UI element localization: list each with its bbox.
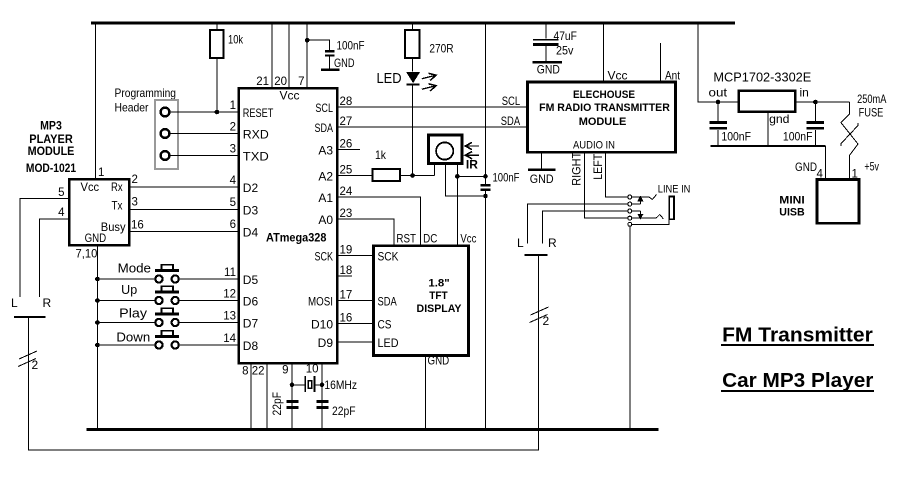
svg-text:Vcc: Vcc [81,180,100,194]
wire rail to MCP out [698,23,739,102]
svg-text:MCP1702-3302E: MCP1702-3302E [713,70,811,85]
svg-text:14: 14 [223,333,236,345]
wire MP3 pin4 R out [40,207,70,297]
svg-text:MODULE: MODULE [28,144,75,158]
IR receiver U5 [429,135,462,163]
svg-text:ELECHOUSE: ELECHOUSE [573,89,635,101]
wire FM Ant [661,43,681,83]
capacitor 100nF MCP out [709,102,751,146]
svg-text:16MHz: 16MHz [324,378,357,392]
node button Up / GND line [95,298,100,303]
capacitor 100nF IR decoupling [480,171,519,190]
jack ring contact [632,215,664,219]
pin number 1 left [230,100,236,112]
wire IR Vcc to cap top [457,175,485,177]
resistor 1k [373,148,400,181]
svg-text:MOD-1021: MOD-1021 [26,161,76,175]
wire PSU ground bus [710,145,825,147]
svg-text:TXD: TXD [243,150,269,164]
pushbutton Down [97,331,238,349]
svg-text:1: 1 [230,100,236,112]
title Car MP3 Player [721,370,874,392]
wire FM Vcc to rail [604,23,628,83]
mini USB connector J3 [779,180,859,224]
svg-text:250mA: 250mA [857,92,886,106]
wire D10 pin16 to TFT CS [337,323,374,325]
wire pin 21 to Vcc rail [256,23,272,88]
node IR Vcc junction [455,174,460,179]
pin number 14 left [223,333,236,345]
pushbutton Mode [97,262,238,283]
svg-text:2: 2 [32,358,39,372]
ground 47uF [532,62,562,76]
IC ATmega328 U1 [239,88,338,363]
svg-text:GND: GND [530,172,554,186]
capacitor 47uF 25v [533,23,577,61]
title FM Transmitter [721,324,874,346]
label MP3 PLAYER MODULE MOD-1021 [26,119,76,176]
wire MCP in [795,101,850,103]
svg-text:Tx: Tx [112,198,123,212]
pin label RXD [243,128,269,142]
wire SDA pin27 to FM [337,126,527,128]
wire MP3 Rx to D2 [129,174,239,187]
svg-text:TFT: TFT [429,290,448,302]
FM radio transmitter module U3 [527,82,675,152]
wire FM LEFT out [591,152,628,197]
jack sleeve [632,197,674,225]
wire MOSI pin17 to TFT SDA [337,300,374,302]
bus marker /2 left [18,351,39,372]
svg-text:in: in [800,86,809,100]
svg-text:D6: D6 [243,295,259,309]
svg-text:SCL: SCL [315,101,333,115]
wire pin 7 to Vcc rail [298,23,307,88]
LED D1 [377,58,421,176]
svg-text:17: 17 [340,290,353,302]
svg-text:RESET: RESET [243,106,274,120]
svg-text:LED: LED [378,336,399,350]
pin label D3 [243,203,259,217]
speaker connector left L/R [11,296,52,317]
wire MP3 pin5 L out [20,187,69,297]
svg-text:23: 23 [340,208,353,220]
svg-text:DISPLAY: DISPLAY [417,303,463,315]
svg-text:CS: CS [378,318,392,332]
svg-text:Rx: Rx [111,180,123,194]
svg-text:D9: D9 [318,336,334,350]
svg-text:8: 8 [242,366,248,378]
svg-text:LEFT: LEFT [591,153,605,180]
svg-text:ATmega328: ATmega328 [266,231,327,245]
wire MCP gnd pin [767,112,769,147]
svg-text:IR: IR [466,158,478,172]
pin number 13 left [223,310,236,322]
svg-text:MOSI: MOSI [308,295,333,309]
svg-text:RST: RST [396,232,416,246]
svg-text:SDA: SDA [378,295,397,309]
svg-text:20: 20 [274,76,287,88]
svg-text:LED: LED [377,70,402,87]
svg-text:MINI: MINI [779,195,804,207]
svg-text:GND: GND [85,231,107,245]
TFT display U4 [374,246,469,356]
svg-text:1k: 1k [375,148,387,162]
svg-text:10: 10 [306,364,319,376]
svg-text:DC: DC [423,232,437,246]
wire Vcc top rail [91,22,735,25]
pin label MOSI [308,295,333,309]
svg-text:7,10: 7,10 [76,247,98,261]
pin label A1 [318,191,333,205]
svg-text:10k: 10k [228,33,244,47]
pin number 24 right [340,186,353,198]
wire TFT GND to rail [425,354,449,430]
voltage regulator MCP1702 U6 [709,86,809,127]
svg-text:19: 19 [340,245,353,257]
svg-text:Vcc: Vcc [608,69,628,83]
resistor 270R [405,23,454,58]
pin label D6 [243,295,259,309]
jack switch arrow down [632,211,644,220]
wire speaker return bus [29,255,539,450]
resistor 10k [210,23,244,112]
svg-text:2: 2 [543,314,550,328]
MP3 player module U2 [69,179,129,245]
svg-text:D3: D3 [243,203,259,217]
node XTAL1 junction [290,383,295,388]
pin number 16 right [340,313,353,325]
node 10k/RESET junction [215,110,220,115]
svg-text:A3: A3 [318,144,333,158]
svg-text:47uF: 47uF [554,29,577,43]
LED arrows [421,72,437,93]
pin label D4 [243,225,259,239]
wire A3 stub pin 26 [337,149,360,151]
svg-text:GND: GND [537,63,560,77]
svg-text:FM RADIO TRANSMITTER: FM RADIO TRANSMITTER [539,102,670,114]
svg-text:25v: 25v [556,44,573,58]
svg-text:1: 1 [98,167,104,179]
svg-text:D8: D8 [243,339,259,353]
pin number 17 right [340,290,353,302]
wire 18 stub [337,275,352,277]
pin number 11 left [224,267,236,279]
line-in jack J2 contacts [628,195,632,226]
label SCL near FM [502,94,521,108]
wire D9 to TFT LED [337,341,374,343]
wire speaker-mid R [543,211,628,244]
pin number 23 right [340,208,353,220]
wire MP3 Busy to D4 [129,220,239,232]
label Programming Header [115,86,177,115]
pin label D9 [318,336,334,350]
wire speaker-mid L [528,204,628,243]
node cap bottom junction [483,194,488,199]
wire MP3 GND drop [96,245,98,430]
svg-text:Play: Play [119,307,148,321]
pin label RESET [243,106,274,120]
pin number 4 left [230,175,237,187]
wire header to RESET [170,111,239,113]
svg-text:D2: D2 [243,181,259,195]
node cap top junction [483,174,488,179]
svg-text:out: out [709,86,728,100]
svg-text:RXD: RXD [243,128,269,142]
pin label D7 [243,317,259,331]
pin number 12 left [223,288,236,300]
pin label D8 [243,339,259,353]
wire header to RXD [170,133,239,135]
pin number 19 right [340,245,353,257]
wire A2 pin25 to 1k [337,175,373,177]
pin label A2 [318,170,333,184]
wire pin 9 XTAL1 [282,363,292,430]
svg-text:A2: A2 [318,170,333,184]
svg-text:L: L [517,236,524,250]
pin number 3 left [230,143,236,155]
svg-text:270R: 270R [429,42,453,56]
wire Vcc to MP3 pin 1 [95,23,97,179]
pin 7,10 label MP3 GND [76,247,98,261]
node out junction [716,100,721,105]
pin number 2 left [230,121,236,133]
wire 1k to IR pin1 [400,175,434,177]
svg-text:28: 28 [340,96,353,108]
pin 1 label MP3 [98,167,104,179]
svg-text:11: 11 [224,267,236,279]
svg-text:GND: GND [334,56,355,70]
svg-text:SCK: SCK [378,250,399,264]
node button Mode / GND line [95,277,100,282]
svg-text:D10: D10 [311,318,333,332]
wire MP3 Tx to D3 [129,197,239,210]
svg-text:21: 21 [256,76,269,88]
svg-text:12: 12 [223,288,236,300]
svg-text:MP3: MP3 [40,119,62,133]
node LED / A2 wire [410,173,415,178]
wire cap bottom to ground rail [485,191,487,430]
svg-text:25: 25 [340,165,353,177]
svg-text:SCK: SCK [315,250,334,264]
svg-text:6: 6 [230,219,236,231]
bus marker /2 mid [530,307,550,328]
svg-text:SDA: SDA [315,121,334,135]
svg-text:5: 5 [230,197,236,209]
node XTAL2 junction [320,383,325,388]
svg-text:22: 22 [252,366,265,378]
pin label SCL [315,101,333,115]
svg-text:UISB: UISB [779,207,804,219]
node button Down / GND line [95,343,100,348]
pin label A3 [318,144,333,158]
pin number 18 right [340,265,353,277]
wire SCK pin19 to TFT [337,255,374,257]
wire pin 8 to ground [242,363,251,430]
pin label D2 [243,181,259,195]
svg-text:26: 26 [340,139,353,151]
pin label D5 [243,273,259,287]
svg-text:gnd: gnd [769,112,789,126]
wire USB pin4 GND [795,146,826,180]
node in junction [813,100,818,105]
svg-text:3: 3 [132,197,138,209]
wire pin 10 XTAL2 [306,363,322,430]
svg-text:LINE IN: LINE IN [658,184,691,196]
pin label SCK [315,250,334,264]
svg-text:D5: D5 [243,273,259,287]
svg-text:A0: A0 [318,213,333,227]
svg-text:16: 16 [131,220,144,232]
pin number 5 left [230,197,236,209]
svg-text:Header: Header [115,101,149,115]
svg-text:13: 13 [223,310,236,322]
wire pin 22 to ground [252,363,267,430]
svg-text:Programming: Programming [115,86,177,100]
pin number 27 right [340,116,353,128]
pushbutton Play [97,307,238,327]
svg-text:4: 4 [230,175,237,187]
speaker connector mid L/R [517,236,557,255]
svg-text:7: 7 [298,76,304,88]
IR arrows [465,142,479,171]
node button Play / GND line [95,320,100,325]
pin label D10 [311,318,333,332]
svg-text:18: 18 [340,265,353,277]
node pin7 / 100nF tap [305,38,310,43]
wire Vcc drop x486 [485,23,487,184]
wire FM GND [541,152,543,168]
svg-text:Vcc: Vcc [460,232,476,246]
svg-text:Up: Up [121,283,137,297]
capacitor 100nF pin7 decoupling [307,39,364,69]
wire jack sleeve to ground [629,226,631,429]
pin number 25 right [340,165,353,177]
svg-text:SDA: SDA [501,114,520,128]
svg-text:AUDIO IN: AUDIO IN [573,140,615,152]
ground pin7 cap [321,56,355,70]
label +5v and pin 1 [852,159,880,180]
fuse 250mA [841,92,886,180]
wire A1 pin24 to TFT DC [337,197,421,246]
svg-text:Mode: Mode [118,262,151,276]
svg-text:A1: A1 [318,191,333,205]
svg-text:SCL: SCL [502,94,521,108]
wire A0 pin23 to TFT RST [337,219,394,246]
label RST DC Vcc above TFT [396,232,476,246]
svg-text:4: 4 [58,207,65,219]
svg-text:FM Transmitter: FM Transmitter [722,324,873,346]
programming header J1 [155,100,178,169]
wire header to TXD [170,155,239,157]
svg-text:D4: D4 [243,225,259,239]
wire FM RIGHT out [570,151,628,218]
svg-text:100nF: 100nF [493,171,520,185]
capacitor 22pF right [317,402,356,419]
svg-text:D7: D7 [243,317,259,331]
crystal X1 16MHz [292,376,357,392]
pin label A0 [318,213,333,227]
svg-text:16: 16 [340,313,353,325]
svg-text:MODULE: MODULE [579,116,627,128]
svg-text:100nF: 100nF [783,130,813,144]
svg-text:R: R [548,236,557,250]
svg-text:Down: Down [116,331,150,345]
jack switch arrow up [632,196,644,205]
label SDA near FM [501,114,520,128]
svg-text:L: L [11,296,18,310]
svg-text:Vcc: Vcc [280,89,300,103]
svg-text:RIGHT: RIGHT [570,151,584,185]
ground rail [87,428,659,431]
wire IR pin1 signal [433,164,435,176]
svg-text:Car MP3 Player: Car MP3 Player [722,370,874,392]
wire IR pin2 gnd [445,164,485,197]
svg-text:100nF: 100nF [337,39,365,53]
svg-text:22pF: 22pF [332,404,356,418]
svg-text:R: R [43,296,52,310]
svg-text:GND: GND [428,354,450,368]
svg-text:9: 9 [282,365,288,377]
wire pin 20 to Vcc rail [274,23,289,88]
svg-text:+5v: +5v [864,159,879,173]
svg-text:22pF: 22pF [270,392,284,416]
capacitor 22pF left [270,392,299,416]
pin label TXD [243,150,269,164]
pin number 26 right [340,139,353,151]
jack tip contact [632,195,657,200]
pushbutton Up [97,283,238,304]
svg-text:5: 5 [58,187,64,199]
pin number 28 right [340,96,353,108]
wire SCL pin28 to FM [337,106,527,108]
label MCP1702-3302E [713,70,811,85]
svg-text:24: 24 [340,186,353,198]
svg-text:Ant: Ant [665,69,681,83]
pin label SDA [315,121,334,135]
ground FM [528,170,556,186]
svg-text:2: 2 [132,174,138,186]
svg-text:2: 2 [230,121,236,133]
label LINE IN [658,184,691,196]
svg-text:1.8": 1.8" [428,278,449,290]
wire IR pin3 Vcc down to TFT [456,164,458,246]
svg-text:GND: GND [795,160,817,174]
svg-text:27: 27 [340,116,353,128]
pin number 6 left [230,219,236,231]
capacitor 100nF MCP in [783,102,824,146]
svg-text:3: 3 [230,143,236,155]
svg-text:100nF: 100nF [721,130,751,144]
svg-text:FUSE: FUSE [859,105,884,119]
